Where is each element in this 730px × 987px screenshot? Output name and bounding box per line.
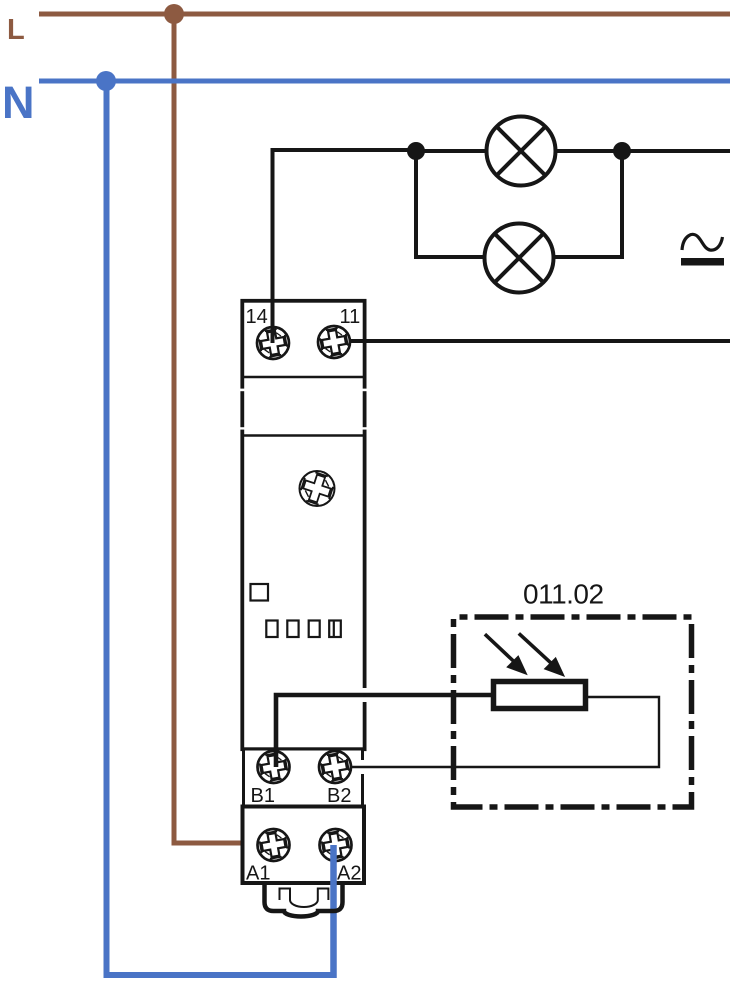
light arrow 1 — [485, 634, 528, 675]
AC supply symbol — [681, 234, 724, 265]
lamp E2 (bottom) — [485, 224, 554, 293]
sensor dash-dot enclosure — [454, 617, 692, 807]
wire stub into screw B1 — [274, 751, 279, 767]
wire N rail (blue neutral line) — [39, 79, 730, 84]
wire from terminal 11 to right edge — [334, 339, 730, 343]
relay B terminal block — [244, 749, 363, 807]
svg-text:B2: B2 — [327, 785, 351, 807]
wire thin return from photoresistor to B2 — [348, 697, 659, 767]
relay divider below terminal block — [244, 376, 364, 378]
relay divider below neck — [244, 434, 364, 437]
photoresistor body — [494, 682, 586, 709]
screw terminal 14 — [257, 327, 289, 359]
screw terminal B2 — [319, 751, 351, 783]
lamp E1 (top) — [487, 117, 556, 186]
gap in B block edge for B2 wire crossing — [359, 760, 368, 774]
wire from terminal 14 up to lamp circuit — [273, 150, 417, 343]
DIP square 4 with divider — [329, 621, 341, 638]
node L junction dot — [164, 4, 184, 24]
relay body screw — [298, 470, 335, 507]
svg-text:L: L — [7, 14, 25, 46]
relay body outline — [242, 301, 364, 749]
screw terminal A2 — [320, 829, 352, 861]
wire top lamp line to right edge — [416, 149, 730, 153]
wire brown vertical from L to A1 — [174, 14, 263, 843]
gap in body edge for B1 wire crossing — [360, 688, 369, 702]
svg-text:A1: A1 — [246, 863, 270, 885]
screw terminal A1 — [258, 829, 290, 861]
screw terminal 11 — [318, 326, 350, 358]
relay A terminal block — [243, 807, 365, 884]
node junction dot left of lamp — [407, 142, 425, 160]
DIP square 2 — [287, 621, 298, 638]
svg-text:N: N — [2, 77, 35, 128]
wire blue from A2 down — [330, 845, 337, 978]
svg-text:B1: B1 — [251, 785, 275, 807]
indicator square single — [251, 584, 269, 601]
wire L rail (brown phase line) — [39, 12, 730, 17]
svg-text:A2: A2 — [337, 863, 361, 885]
light arrow 2 — [519, 633, 565, 677]
DIN rail clip foot — [265, 883, 343, 917]
node junction dot right of lamp — [613, 142, 631, 160]
wire lower lamp branch right — [519, 151, 622, 257]
wire blue vertical from N down and across bottom — [107, 81, 335, 975]
DIP square 1 — [266, 621, 277, 638]
screw terminal B1 — [258, 751, 290, 783]
wire B1 to photoresistor — [276, 695, 492, 760]
DIP square 3 — [309, 621, 320, 638]
wire lower lamp branch left — [416, 151, 519, 257]
svg-text:011.02: 011.02 — [523, 579, 604, 610]
svg-text:11: 11 — [340, 306, 361, 328]
svg-text:14: 14 — [246, 306, 268, 328]
wire stub into screw 14 — [271, 327, 275, 343]
relay edge notches — [239, 389, 368, 430]
node N junction dot — [96, 71, 116, 91]
